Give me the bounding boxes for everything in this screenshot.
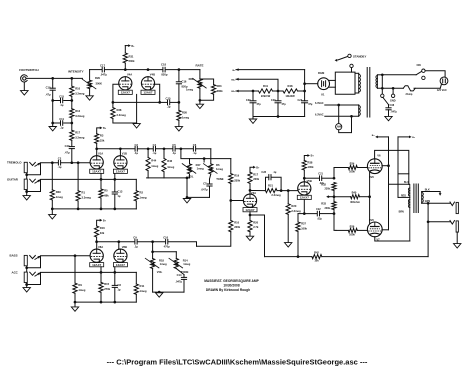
capacitor C22 coupling (316, 211, 318, 216)
node junction speaker tap (427, 202, 430, 205)
svg-text:C8: C8 (117, 283, 121, 287)
svg-text:C3: C3 (134, 143, 138, 147)
svg-text:V1B: V1B (122, 152, 127, 156)
svg-text:680k: 680k (217, 89, 223, 93)
ground under R26 (175, 127, 182, 131)
wire R10b to bass channel (197, 232, 231, 247)
node junction ladder right mid (70, 99, 73, 102)
wire tone stack top rail 2 (156, 148, 172, 150)
wire rectifier filament stubs (329, 79, 335, 81)
wire to V5B grid (281, 190, 301, 192)
svg-text:R6: R6 (216, 163, 220, 167)
resistor R19 grid stopper (229, 174, 233, 184)
svg-text:.1µ: .1µ (172, 151, 176, 155)
svg-text:.47µ: .47µ (45, 93, 51, 97)
svg-text:1meg: 1meg (186, 88, 193, 92)
wire B+ to OT center tap RED (398, 136, 409, 138)
switch STANDBY lever (338, 56, 348, 60)
capacitor C24 filter (304, 100, 306, 102)
svg-text:R44: R44 (151, 159, 156, 163)
svg-text:C20: C20 (271, 99, 276, 102)
wire rectifier output to B+ (305, 83, 318, 85)
capacitor C18 (162, 67, 164, 72)
svg-text:C10: C10 (163, 236, 168, 240)
svg-text:1meg: 1meg (160, 262, 167, 266)
wire filament top lead (325, 104, 359, 106)
switch STANDBY terminal bottom (350, 64, 353, 67)
capacitor C19 (50, 87, 55, 89)
wire guitar input line (41, 178, 137, 180)
svg-text:GND: GND (390, 100, 396, 103)
ground under footswitch jack (21, 91, 29, 95)
wire R41 to node (273, 90, 284, 92)
svg-text:120 VAC: 120 VAC (437, 89, 447, 92)
svg-text:.1µ: .1µ (273, 171, 277, 174)
tube V8B 12AX7 triode (114, 249, 127, 262)
connector J1 tremolo jack (24, 162, 27, 172)
wire rate pot loop bottom (200, 94, 214, 100)
svg-text:1meg: 1meg (183, 262, 190, 266)
switch SW-ON terminal left (422, 69, 425, 72)
svg-text:R36: R36 (350, 224, 355, 228)
wire C13 upper (114, 173, 116, 191)
wire tone stack bottom bus (147, 177, 190, 179)
tube V4B (12AX7 triode) (141, 77, 154, 90)
wire bass TONE feed (153, 251, 177, 253)
svg-text:C38: C38 (390, 104, 395, 107)
svg-text:2.2meg: 2.2meg (271, 193, 281, 197)
node junction R26 top (178, 101, 181, 104)
wire filament bottom lead (325, 115, 359, 117)
node junction bass tone feed (151, 250, 154, 253)
node junction cathode bus right (158, 101, 161, 104)
svg-text:C18: C18 (161, 63, 166, 67)
svg-text:FOOTSWITCH: FOOTSWITCH (19, 68, 38, 72)
wire V8A plate up (96, 242, 98, 249)
resistor R42 NFB (312, 255, 322, 259)
wire R17b to plate (249, 184, 251, 195)
svg-text:10/30/2008: 10/30/2008 (223, 284, 239, 288)
resistor R10 (70, 86, 74, 96)
connector P1 mains plug 120VAC (440, 77, 448, 85)
svg-text:--- C:\Program Files\LTC\SwCA: --- C:\Program Files\LTC\SwCADIII\Kschem… (107, 357, 368, 366)
svg-text:C22: C22 (316, 208, 321, 211)
ground under R29 (86, 96, 93, 100)
svg-text:INTENSITY: INTENSITY (68, 70, 84, 74)
wire tone stack top rail 1 (138, 148, 153, 150)
wire oscillator cathode bus (113, 101, 160, 103)
power flag B+ bass (97, 220, 100, 226)
wire cathode line to R40 (334, 196, 351, 198)
svg-text:12AX7: 12AX7 (121, 91, 131, 95)
svg-text:C2: C2 (58, 157, 62, 161)
svg-text:R22: R22 (189, 77, 194, 81)
resistor R31 plate feed (123, 53, 127, 63)
svg-text:C14: C14 (177, 273, 182, 277)
capacitor C7 (210, 174, 211, 179)
svg-text:12AX7: 12AX7 (245, 208, 255, 212)
svg-text:1meg: 1meg (182, 115, 189, 119)
svg-text:100k: 100k (349, 233, 355, 237)
resistor R3 plate feed (95, 134, 99, 144)
svg-text:10k/2W: 10k/2W (285, 94, 295, 98)
svg-text:.1µ: .1µ (60, 103, 64, 107)
resistor R9 grid leak (74, 256, 76, 283)
node junction left ladder mid (51, 99, 54, 102)
svg-text:R17: R17 (75, 130, 80, 134)
svg-text:.1µ: .1µ (167, 105, 171, 109)
power flag B+ rail 3 (236, 90, 239, 93)
svg-text:C24: C24 (298, 99, 303, 102)
resistor R28 (112, 102, 114, 107)
wire bass VOL bottom (152, 269, 154, 293)
svg-text:1µ: 1µ (117, 287, 120, 291)
ground under bass jacks (23, 288, 30, 292)
power flag B+ OT center tap (409, 136, 412, 139)
wire oscillator top rail left (90, 69, 102, 71)
svg-text:R17: R17 (253, 172, 258, 176)
wire R20 to ground (287, 214, 289, 242)
fuse F1 2Amp (403, 86, 415, 91)
wire R34 to V6 grid (357, 167, 367, 169)
svg-text:STANDBY: STANDBY (353, 55, 366, 59)
wire V3A cathode to ground (249, 232, 251, 236)
wire fuse to primary bottom (377, 87, 403, 89)
svg-text:12AX7: 12AX7 (92, 263, 102, 267)
wire V4A grid to cathode bus (113, 84, 119, 102)
node junction tone wiper (203, 157, 206, 160)
svg-text:BRN: BRN (399, 211, 404, 214)
resistor R48 dropper (283, 89, 298, 93)
svg-text:R12: R12 (75, 109, 80, 113)
svg-text:RATE: RATE (196, 63, 204, 67)
capacitor C2 (57, 160, 59, 165)
wire bass plate bus (97, 241, 135, 243)
svg-text:RED: RED (401, 194, 406, 197)
svg-text:R3: R3 (100, 134, 104, 138)
wire TONE top (210, 149, 212, 164)
svg-text:R14: R14 (183, 258, 188, 262)
power flag 0 cathode line (326, 195, 329, 198)
wire rate pot loop top (200, 79, 214, 85)
wire V4 cathodes down (136, 94, 138, 123)
wire X2 to cathode resistor line (329, 196, 334, 198)
ground under rate pot (199, 100, 201, 104)
node junction VOL branch (180, 147, 183, 150)
node junction C24 top / rectifier (303, 90, 306, 93)
connector J3 bass jack (24, 255, 27, 265)
svg-text:12AX7: 12AX7 (116, 263, 126, 267)
capacitor C3 (134, 147, 136, 152)
svg-text:R34: R34 (350, 161, 355, 165)
power flag B+ V3A (250, 167, 253, 172)
svg-text:3.3meg: 3.3meg (82, 196, 92, 200)
svg-text:230k: 230k (253, 177, 259, 181)
potentiometer R18 bass VOL (151, 259, 155, 269)
tube box V8A (90, 263, 104, 267)
ground oscillator bottom (133, 124, 140, 128)
svg-text:47µ: 47µ (282, 103, 287, 106)
node junction cathode bus left (112, 101, 115, 104)
node junction at V4A plate (124, 68, 127, 71)
svg-text:BASS: BASS (10, 254, 18, 258)
wire plate to R21/C28 node (250, 190, 266, 192)
svg-text:100k: 100k (349, 170, 355, 174)
svg-text:V4B: V4B (150, 73, 155, 77)
tube box V8B (113, 263, 127, 267)
capacitor C21 coupling (304, 177, 318, 179)
wire C10 to mixer corner (169, 242, 197, 247)
svg-text:.1µ: .1µ (58, 165, 62, 169)
wire OT secondary bottom GRN (422, 202, 450, 204)
svg-text:1meg: 1meg (197, 166, 204, 170)
svg-text:22k/1W: 22k/1W (261, 94, 271, 98)
wire filter cap ground bus (253, 116, 305, 118)
svg-text:C19: C19 (46, 85, 51, 89)
node junction R39 top (51, 161, 54, 164)
node junction rate pot ground (199, 99, 202, 102)
tube box V4A 12AX7 (118, 90, 132, 94)
svg-text:1meg: 1meg (78, 288, 85, 292)
node junction acc line under V8A (100, 271, 103, 274)
tube V7 6V6 power pentode (367, 222, 382, 237)
power flag B+ plate rail (375, 136, 378, 139)
wire footswitch jack to ground (23, 82, 25, 91)
tube U1 rectifier (318, 78, 330, 90)
tube box V1A (90, 169, 104, 173)
tube V5B 12AX7 triode (298, 182, 311, 195)
wire bass bus to pots (138, 241, 165, 243)
capacitor C6 (192, 147, 194, 152)
svg-text:GUITAR: GUITAR (7, 177, 19, 181)
svg-text:300K: 300K (96, 82, 102, 86)
wire V1A plate up (96, 149, 98, 156)
resistor R38 plate load (302, 161, 306, 171)
svg-text:R5: R5 (104, 189, 108, 193)
svg-text:100k: 100k (301, 226, 307, 230)
node junction X2 (333, 191, 335, 202)
svg-text:1meg: 1meg (216, 167, 223, 171)
node junction primary bottom (381, 87, 384, 90)
svg-text:100k: 100k (308, 165, 314, 169)
wire cathode bus to C25 (160, 101, 167, 103)
svg-text:R39: R39 (56, 190, 61, 194)
ground bass pots (158, 291, 161, 294)
capacitor C13 bypass (112, 191, 117, 193)
svg-text:1meg: 1meg (56, 195, 63, 199)
wire V4B right side down (155, 84, 160, 102)
ground tone stack (183, 199, 190, 203)
svg-text:230k: 230k (324, 188, 330, 191)
wire V6 cathode to V7 top (369, 173, 371, 224)
tube box V5B (297, 195, 311, 199)
capacitor C8 bypass (114, 267, 116, 285)
transformer T1 HV secondary coil (355, 72, 359, 74)
resistor R32 divider top (332, 183, 336, 191)
wire VOL bottom (189, 174, 191, 178)
svg-text:.1µ: .1µ (134, 151, 138, 155)
svg-text:R26: R26 (182, 110, 187, 114)
ground under input jacks (23, 196, 30, 200)
transformer T1 primary coil (376, 75, 378, 89)
svg-text:R48: R48 (288, 84, 293, 88)
svg-text:R31: R31 (129, 55, 134, 59)
node junction V8B plate (117, 240, 120, 243)
wire primary top lead (377, 74, 382, 76)
svg-text:68k: 68k (104, 194, 109, 198)
wire C40 to input line (71, 149, 73, 163)
resistor R33 divider bottom (332, 202, 336, 210)
wire bass input line (41, 255, 91, 257)
svg-text:R10: R10 (234, 220, 239, 224)
svg-text:12AX7: 12AX7 (143, 91, 153, 95)
wire bass ground bus (75, 301, 136, 303)
resistor R16 plate feed (95, 226, 99, 237)
node junction R20 top (287, 189, 290, 192)
ground under phase ladder (52, 123, 54, 127)
wire V7 cathode to OT spine bottom (375, 237, 410, 241)
wire R19 to V3A grid node (230, 184, 232, 201)
resistor R17b plate load (248, 172, 252, 183)
wire lamp return (339, 116, 352, 132)
svg-text:R28: R28 (117, 108, 122, 112)
node junction primary top (381, 73, 384, 76)
resistor R44 (147, 149, 149, 158)
svg-text:2.7k: 2.7k (253, 225, 259, 229)
resistor R12 (70, 109, 74, 118)
power flag secondary top (439, 193, 442, 196)
svg-text:C15: C15 (166, 96, 171, 100)
wire standby to loop (351, 68, 353, 73)
svg-text:R37: R37 (301, 222, 306, 226)
svg-text:.047µ: .047µ (100, 73, 107, 77)
svg-text:B2+: B2+ (231, 79, 236, 81)
svg-text:V4A: V4A (127, 73, 132, 77)
ground under C38 (385, 116, 392, 120)
resistor R23 (212, 85, 216, 95)
resistor R36 grid V7 (336, 229, 348, 231)
node junction C39 top (252, 90, 255, 93)
potentiometer R22 RATE (198, 79, 202, 88)
node junction C20 top (277, 90, 280, 93)
node junction left ladder bottom (51, 122, 54, 125)
svg-text:12AX7: 12AX7 (116, 170, 126, 174)
wire grid feed corner down (230, 159, 232, 174)
connector speaker jack 2 (450, 221, 455, 225)
node junction V3A plate (249, 189, 252, 192)
node junction X1 (333, 177, 336, 180)
power flag B+ rail 2 (236, 78, 239, 81)
wire bass jack sleeve link (26, 266, 28, 272)
svg-text:C16: C16 (182, 79, 187, 83)
svg-text:R33: R33 (321, 202, 326, 206)
svg-text:R18: R18 (159, 258, 164, 262)
ground filter caps (252, 117, 254, 120)
power flag B+ V5B (304, 156, 307, 161)
capacitor C16 (176, 81, 181, 83)
transformer T1 filament secondary coil (358, 105, 360, 117)
wire C38 to ground (388, 110, 390, 117)
wire V5B cathode node (304, 200, 316, 214)
resistor R11 acc grid leak (135, 272, 137, 284)
svg-text:C4: C4 (153, 143, 157, 147)
svg-text:230k: 230k (234, 225, 240, 229)
wire plate bus to C3 (97, 148, 135, 150)
capacitor C10 coupling (165, 239, 167, 244)
wire R40 to power tube cathodes (360, 196, 370, 198)
svg-text:12AX7: 12AX7 (92, 170, 102, 174)
node junction V8A plate (95, 240, 98, 243)
tube box V4B 12AX7 (141, 90, 155, 94)
svg-text:R11: R11 (140, 284, 145, 288)
resistor R46 (163, 149, 165, 159)
svg-text:.047µ: .047µ (391, 111, 398, 114)
svg-text:230k: 230k (129, 59, 135, 63)
node junction at C16 branch (178, 68, 181, 71)
resistor R34 grid V6 (336, 167, 348, 169)
resistor R2 guitar grid leak (135, 179, 137, 190)
wire speaker jack sleeve to ground (456, 232, 458, 244)
wire R12-R17 (71, 118, 73, 130)
wire death cap lever (383, 97, 389, 104)
capacitor C28 loop (266, 177, 269, 190)
resistor R21 coupling (266, 189, 278, 193)
wire input jack sleeve link (26, 173, 28, 179)
svg-text:R46: R46 (167, 159, 172, 163)
switch SW-ON terminal right (422, 76, 425, 79)
svg-text:C15: C15 (59, 95, 64, 99)
svg-text:.47µ: .47µ (64, 151, 70, 155)
transformer T2 output primary coil (409, 184, 411, 241)
svg-text:R16: R16 (100, 226, 105, 230)
svg-text:VOL: VOL (157, 270, 163, 274)
resistor R5 cathode (99, 189, 103, 198)
svg-text:C7: C7 (203, 181, 207, 185)
svg-text:V6: V6 (377, 154, 381, 158)
svg-text:2Amp: 2Amp (406, 93, 413, 96)
svg-text:U1: U1 (321, 92, 325, 96)
wire B+ rail 1 (236, 69, 305, 71)
wire C16 branch (178, 70, 180, 82)
svg-text:2.2meg: 2.2meg (291, 209, 301, 213)
resistor R37 splitter lower (297, 214, 299, 222)
svg-text:R42: R42 (314, 251, 319, 255)
wire R26 to ground (178, 120, 180, 126)
svg-text:C17: C17 (100, 64, 105, 68)
wire rate pot bottom (199, 88, 201, 100)
node junction on footswitch line at C19 (51, 77, 54, 80)
lamp DS1 pilot light (336, 124, 342, 130)
svg-text:R1: R1 (82, 191, 86, 195)
resistor R1 trem grid resistor (77, 163, 79, 191)
svg-text:ACC: ACC (12, 270, 19, 274)
connector J2 guitar jack (24, 179, 27, 189)
wire speaker jack link (427, 203, 429, 222)
svg-text:R23: R23 (217, 84, 222, 88)
svg-text:1meg: 1meg (167, 165, 174, 169)
wire lamp feed (338, 105, 340, 124)
power flag B+ preamp (97, 128, 100, 134)
svg-text:C5: C5 (172, 143, 176, 147)
svg-text:270k: 270k (104, 287, 110, 291)
resistor R40 cathode bias (351, 195, 360, 199)
wire C7 return (187, 196, 210, 198)
svg-text:1µ: 1µ (117, 194, 120, 198)
capacitor C39 filter (252, 91, 254, 101)
svg-text:.1µ: .1µ (134, 244, 138, 248)
svg-text:DRAWN By Kirkwood Rough: DRAWN By Kirkwood Rough (206, 288, 250, 292)
svg-text:1meg: 1meg (151, 164, 158, 168)
